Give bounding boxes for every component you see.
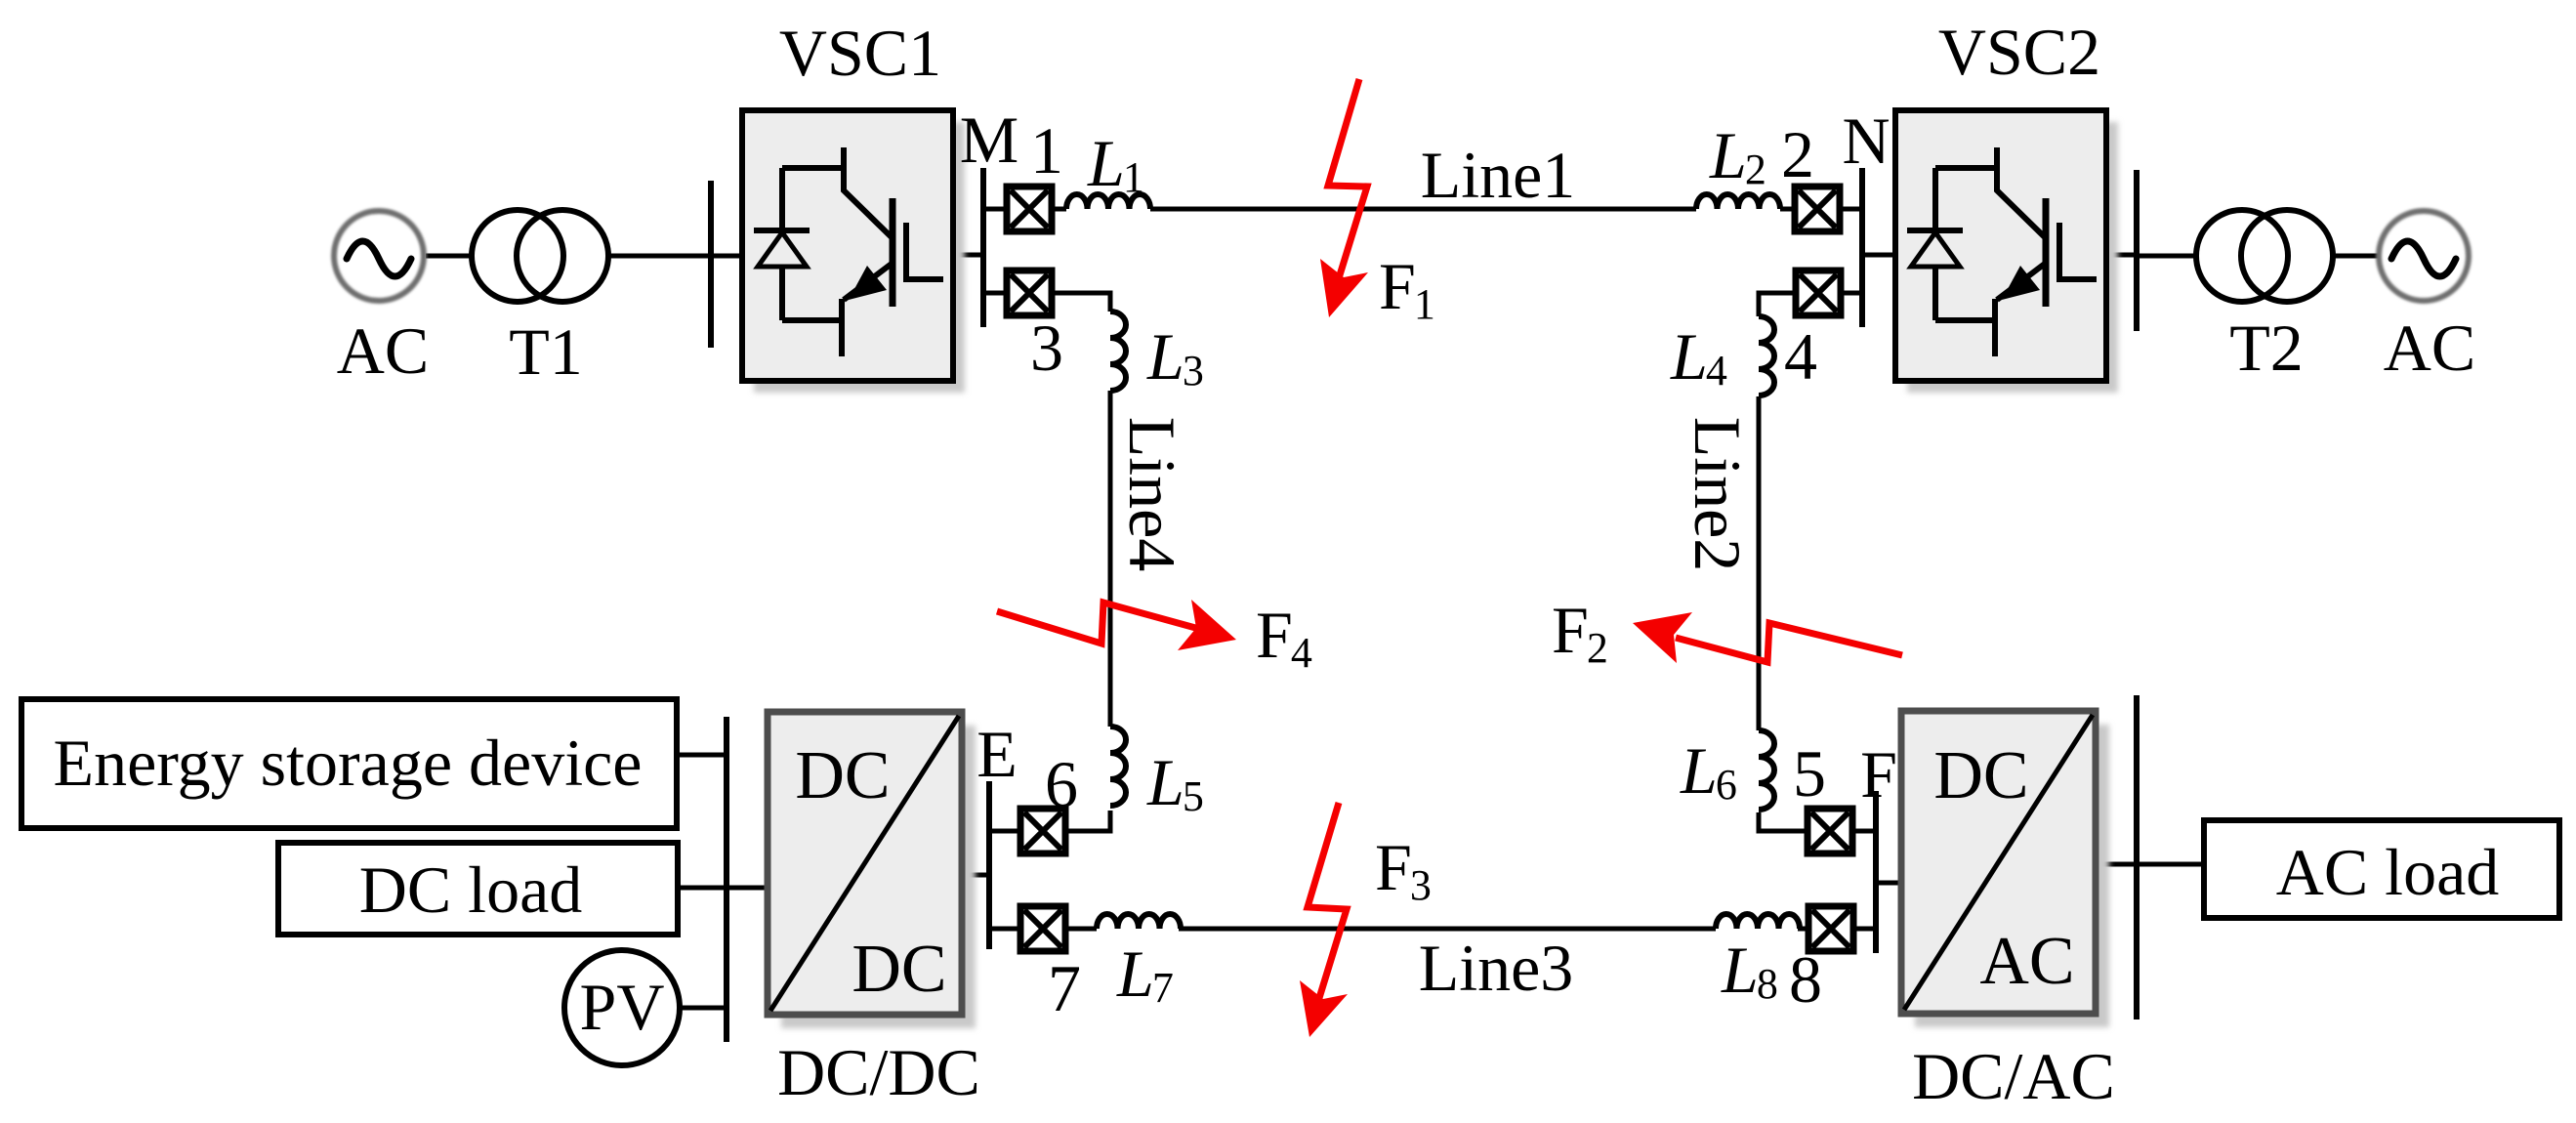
svg-text:N: N [1842, 104, 1890, 178]
svg-text:DC/AC: DC/AC [1912, 1039, 2115, 1113]
svg-text:DC: DC [852, 932, 946, 1007]
svg-text:2: 2 [1781, 117, 1814, 191]
svg-text:Line3: Line3 [1419, 931, 1574, 1005]
svg-text:Energy storage device: Energy storage device [54, 726, 643, 800]
svg-text:Line2: Line2 [1681, 417, 1755, 572]
svg-text:4: 4 [1784, 319, 1817, 394]
svg-text:M: M [960, 103, 1018, 177]
svg-text:T1: T1 [509, 314, 583, 389]
svg-text:6: 6 [1045, 747, 1078, 821]
svg-text:7: 7 [1048, 951, 1081, 1025]
svg-text:DC: DC [795, 738, 890, 813]
svg-text:AC load: AC load [2276, 835, 2500, 909]
svg-text:AC: AC [1979, 924, 2074, 999]
svg-text:E: E [976, 717, 1018, 791]
svg-text:T2: T2 [2229, 311, 2304, 385]
svg-text:F: F [1860, 737, 1897, 811]
svg-text:5: 5 [1793, 736, 1826, 811]
svg-text:Line1: Line1 [1421, 138, 1576, 212]
svg-text:PV: PV [580, 970, 665, 1044]
svg-text:VSC1: VSC1 [779, 16, 941, 90]
svg-text:8: 8 [1789, 942, 1822, 1017]
svg-text:AC: AC [337, 313, 429, 388]
svg-text:AC: AC [2384, 311, 2475, 385]
svg-text:DC: DC [1933, 738, 2028, 813]
svg-text:DC/DC: DC/DC [777, 1035, 980, 1109]
svg-text:DC load: DC load [359, 853, 583, 927]
svg-text:3: 3 [1030, 311, 1063, 385]
svg-text:Line4: Line4 [1115, 417, 1189, 572]
svg-text:VSC2: VSC2 [1938, 15, 2100, 89]
svg-text:1: 1 [1030, 113, 1063, 187]
